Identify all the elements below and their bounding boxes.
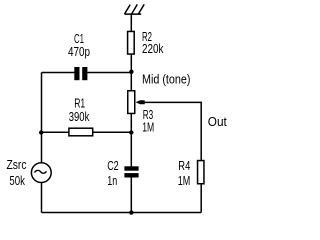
svg-text:Mid (tone): Mid (tone)	[142, 72, 191, 87]
svg-text:470p: 470p	[68, 44, 90, 59]
svg-text:R4: R4	[178, 158, 190, 173]
svg-text:1M: 1M	[142, 120, 154, 135]
svg-text:1n: 1n	[107, 173, 117, 188]
svg-text:C2: C2	[107, 158, 119, 173]
svg-text:Out: Out	[208, 114, 227, 129]
svg-text:390k: 390k	[69, 109, 90, 124]
svg-text:Zsrc: Zsrc	[7, 157, 27, 172]
svg-text:1M: 1M	[178, 173, 191, 188]
svg-text:50k: 50k	[9, 173, 25, 188]
svg-text:220k: 220k	[142, 41, 164, 56]
